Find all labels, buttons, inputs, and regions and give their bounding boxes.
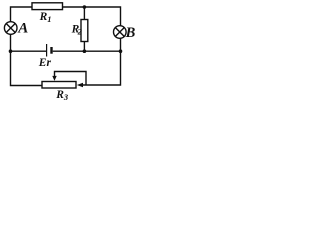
node top junction of R2 branch: [83, 5, 87, 9]
svg-text:E: E: [38, 57, 47, 69]
node right junction on lamp B rail: [119, 49, 123, 53]
wire R2 branch lower: [83, 42, 85, 52]
arrowhead of wiper onto R3: [52, 76, 56, 81]
svg-text:B: B: [125, 25, 136, 41]
wire R2 branch upper: [83, 7, 85, 20]
battery E r: [47, 44, 52, 57]
wire top-left riser and top wire to R1: [11, 7, 33, 22]
wire R1 to top-right corner and down to lamp B: [63, 7, 121, 26]
lamp B: [114, 26, 127, 39]
node R2 bottom junction: [83, 49, 87, 53]
svg-text:R1: R1: [39, 11, 52, 24]
svg-text:r: r: [47, 57, 52, 69]
svg-text:R3: R3: [55, 89, 69, 102]
rheostat R3: [42, 82, 76, 89]
lamp A: [4, 22, 17, 35]
wire left rail from lamp A down to bottom corner: [11, 34, 43, 85]
node left junction of middle wire: [9, 49, 13, 53]
svg-text:A: A: [17, 21, 28, 37]
resistor R2: [81, 20, 88, 42]
arrowhead into R3 right end: [77, 83, 83, 88]
resistor R1: [32, 3, 63, 10]
wire wiper of R3 up and over to right rail: [55, 72, 87, 86]
wire middle from battery to right rail: [53, 50, 121, 52]
wire right rail from lamp B down to bottom corner: [83, 38, 121, 85]
wire middle from left junction to battery: [11, 50, 47, 52]
